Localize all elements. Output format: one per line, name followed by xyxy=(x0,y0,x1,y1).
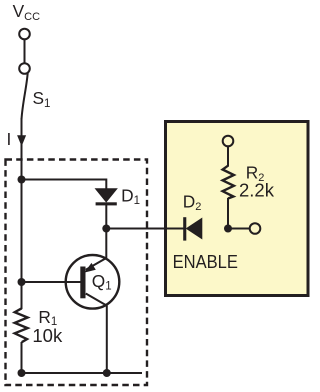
current arrow I xyxy=(17,135,26,146)
resistor R1 xyxy=(15,308,28,342)
wire node B to Q1 emitter xyxy=(86,229,107,270)
wire switch to dashed box xyxy=(21,118,23,180)
wire terminal to R2 xyxy=(227,146,229,166)
wire node C to resistor R1 xyxy=(21,282,23,309)
svg-text:D1: D1 xyxy=(121,185,140,207)
resistor R2 xyxy=(223,166,234,199)
node A (top left junction) xyxy=(18,176,26,184)
wire node F to enable terminal xyxy=(228,228,250,230)
wire R2 to node F xyxy=(227,198,229,229)
switch S1 pole terminal xyxy=(19,63,30,74)
diode D1 xyxy=(96,189,117,206)
terminal Vcc xyxy=(19,29,30,40)
wire base of Q1 xyxy=(22,281,81,283)
dashed box (switched-load outline) xyxy=(6,160,148,386)
svg-text:VCC: VCC xyxy=(13,1,40,23)
diode D2 xyxy=(183,217,202,240)
svg-text:ENABLE: ENABLE xyxy=(173,251,238,272)
wire D1 cathode to node B xyxy=(105,205,107,229)
terminal ENABLE xyxy=(250,223,261,234)
wire node A to node C (left rail) xyxy=(21,180,23,283)
svg-text:2.2k: 2.2k xyxy=(239,180,275,201)
wire R1 to bottom rail xyxy=(21,342,23,373)
node C (base junction) xyxy=(18,278,26,286)
svg-text:S1: S1 xyxy=(33,88,51,110)
enable block (yellow box) xyxy=(166,122,309,296)
node F xyxy=(224,225,232,233)
wire Vcc terminal to switch pole xyxy=(24,39,26,63)
bottom rail wire xyxy=(22,372,143,374)
svg-text:10k: 10k xyxy=(32,325,63,346)
transistor Q1 (PNP) xyxy=(66,255,120,309)
wire node B to diode D2 (enable line) xyxy=(106,228,184,230)
svg-text:I: I xyxy=(7,129,12,149)
node B xyxy=(102,225,110,233)
node D (R1 to rail) xyxy=(18,369,26,377)
switch S1 lever xyxy=(22,73,28,120)
wire node A to diode D1 anode xyxy=(22,180,107,190)
wire Q1 collector to bottom rail xyxy=(106,306,108,374)
terminal (enable pull-up top) xyxy=(223,136,234,147)
node E (collector to rail) xyxy=(103,369,111,377)
